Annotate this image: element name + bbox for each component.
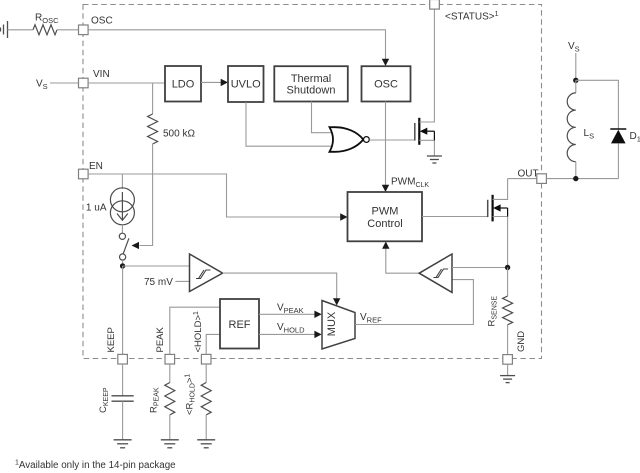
chip boundary dashed box — [83, 5, 542, 359]
wire R_OSC to OSC pad — [57, 29, 79, 31]
svg-text:Thermal: Thermal — [291, 73, 331, 85]
wire V_S node to diode branch — [576, 80, 619, 129]
wire C_KEEP to ground — [122, 401, 124, 440]
arrow into PWM Control bottom — [382, 242, 389, 249]
arrow onto switch blade — [132, 242, 140, 249]
pin pad OSC — [79, 25, 89, 35]
svg-text:LDO: LDO — [172, 79, 195, 91]
wire HOLD pad to REF — [206, 334, 220, 354]
wire V_S to VIN pad — [50, 82, 79, 84]
svg-text:1 uA: 1 uA — [86, 203, 107, 214]
hysteresis glyph U3 — [434, 269, 449, 278]
pin pad KEEP — [118, 354, 128, 364]
transistor Q2 channel bar — [492, 195, 494, 222]
wire PEAK pad to R_PEAK — [169, 364, 171, 383]
svg-text:<HOLD>1: <HOLD>1 — [193, 311, 204, 353]
node R_SENSE junction — [505, 265, 510, 270]
pin pad OUT — [537, 174, 547, 184]
svg-text:1Available only in the 14-pin: 1Available only in the 14-pin package — [15, 460, 176, 472]
resistor R_HOLD — [201, 383, 211, 415]
svg-text:PWM: PWM — [372, 206, 399, 218]
node (switch output junction) — [122, 260, 124, 266]
block OSC — [362, 66, 411, 101]
svg-text:75 mV: 75 mV — [144, 277, 173, 288]
ground under R_PEAK — [161, 440, 179, 448]
arrow into OSC block top — [382, 59, 389, 66]
ground under Q1 — [427, 156, 442, 163]
transistor Q1 body arrow — [420, 128, 435, 141]
wire R_SENSE node to sense comparator — [452, 267, 508, 269]
wire 75mV to comparator — [176, 280, 190, 282]
hysteresis glyph U2 — [196, 270, 211, 279]
arrow EN into PWM Control — [340, 213, 347, 220]
wire junction down to KEEP pad — [122, 266, 124, 354]
pin pad HOLD — [201, 354, 211, 364]
resistor 500k from VIN line — [152, 83, 154, 114]
arrow into PWM Control top — [382, 185, 389, 192]
wire 500k to switch arrow — [140, 144, 153, 246]
ground under R_HOLD — [197, 440, 215, 448]
comparator U2 (75mV) — [190, 254, 223, 292]
wire NOR output to Q1 gate — [369, 139, 415, 141]
svg-text:<STATUS>1: <STATUS>1 — [445, 11, 499, 23]
arrow into UVLO — [221, 79, 228, 86]
wire GND pad to ground — [507, 364, 509, 375]
svg-text:UVLO: UVLO — [231, 79, 261, 91]
wire R_HOLD to ground — [205, 415, 207, 440]
capacitor C_KEEP — [112, 396, 134, 401]
wire KEEP pad to C_KEEP — [122, 364, 124, 396]
pin pad PEAK — [165, 354, 175, 364]
transistor Q2 drain — [493, 179, 508, 200]
block Thermal Shutdown — [274, 66, 348, 101]
svg-text:GND: GND — [516, 331, 527, 352]
comparator U3 (current sense) — [419, 254, 452, 292]
transistor Q1 (status) gate bar — [414, 123, 416, 141]
wire VIN to LDO — [88, 82, 165, 84]
svg-text:KEEP: KEEP — [106, 327, 117, 352]
transistor Q2 body arrow — [493, 204, 508, 216]
ground under C_KEEP — [114, 440, 132, 448]
node OUT junction — [573, 176, 578, 181]
NOR output bubble — [364, 137, 370, 143]
wire R_SENSE to GND pad — [507, 325, 509, 355]
wire EN to current source — [121, 174, 123, 189]
block LDO — [165, 66, 201, 102]
switch S1 — [121, 225, 123, 233]
block UVLO — [228, 66, 264, 102]
wire V_S down — [575, 53, 577, 80]
resistor R_PEAK — [165, 383, 175, 415]
svg-text:EN: EN — [89, 161, 103, 172]
transistor Q1 channel bar — [418, 118, 420, 145]
block REF — [220, 299, 259, 349]
wire R_PEAK to ground — [169, 415, 171, 440]
wire Q2 drain to OUT pad — [508, 178, 537, 180]
resistor R_SENSE — [503, 296, 513, 325]
wire Thermal Shutdown to NOR input A — [312, 102, 333, 133]
wire V_PEAK REF to MUX — [259, 313, 315, 315]
wire V_REF MUX to sense comparator — [355, 280, 473, 325]
svg-text:Control: Control — [367, 218, 402, 230]
node V_S junction — [573, 78, 578, 83]
inductor L_S — [575, 80, 577, 93]
wire UVLO to NOR input B — [246, 102, 333, 146]
resistor R_OSC — [33, 25, 57, 35]
wire comparator out to MUX select — [223, 273, 337, 298]
svg-text:Shutdown: Shutdown — [287, 85, 336, 97]
svg-text:OSC: OSC — [91, 16, 113, 27]
svg-text:OUT: OUT — [518, 169, 539, 180]
wire OSC block to PWM Control (PWM_CLK) — [385, 102, 387, 186]
svg-text:OSC: OSC — [374, 79, 398, 91]
svg-text:PEAK: PEAK — [155, 326, 166, 352]
svg-text:MUX: MUX — [326, 311, 338, 336]
wire V_HOLD REF to MUX — [259, 333, 315, 335]
wire ground to R_OSC — [8, 29, 34, 31]
diode D1 — [610, 128, 626, 130]
block PWM Control — [348, 192, 423, 241]
pin pad EN — [79, 169, 89, 179]
wire OSC pad to OSC block — [88, 30, 385, 60]
transistor Q2 source — [493, 217, 508, 268]
mux MUX — [322, 301, 355, 350]
svg-text:REF: REF — [229, 319, 251, 331]
wire OUT pad to external — [546, 178, 618, 180]
arrow into MUX select — [333, 298, 340, 305]
pin pad VIN — [79, 78, 89, 88]
svg-text:VIN: VIN — [93, 69, 110, 80]
pin pad GND — [503, 355, 513, 365]
transistor Q1 source — [419, 140, 434, 156]
current source I1 1uA — [110, 188, 134, 212]
pin pad STATUS — [430, 0, 440, 9]
wire EN to PWM Control — [88, 174, 340, 217]
wire PWM Control to Q2 gate — [422, 216, 488, 218]
svg-text:500 kΩ: 500 kΩ — [163, 129, 195, 140]
wire junction to comparator — [123, 265, 190, 267]
NOR gate U1 — [330, 127, 364, 152]
wire HOLD pad to R_HOLD — [205, 364, 207, 383]
ground under GND pad — [500, 376, 515, 383]
wire LDO to UVLO — [201, 81, 222, 83]
ground (left of R_OSC) — [1, 21, 8, 38]
wire node to R_SENSE — [507, 268, 509, 297]
wire sense comparator to PWM Control bottom — [386, 249, 419, 274]
transistor Q1 drain — [419, 9, 434, 122]
wire PEAK pad to REF — [170, 307, 220, 354]
transistor Q2 gate bar — [487, 200, 489, 217]
